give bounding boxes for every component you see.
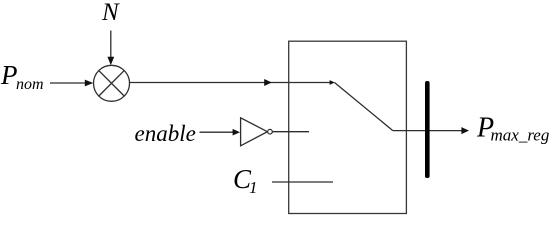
wire multiplier to switch box xyxy=(130,82,331,84)
output label Pmax_reg xyxy=(476,113,549,145)
label enable xyxy=(135,121,196,146)
svg-text:enable: enable xyxy=(135,121,196,146)
wire enable to inverter xyxy=(200,129,241,136)
multiplier M1 xyxy=(94,65,130,101)
input label N xyxy=(101,0,120,26)
label C1 xyxy=(233,164,258,197)
wire inverter to switch box xyxy=(272,131,309,133)
svg-text:max_reg: max_reg xyxy=(491,126,550,145)
bus bar xyxy=(425,81,430,178)
wire C1 to switch box xyxy=(272,181,333,183)
wire N to multiplier xyxy=(107,31,114,66)
svg-text:N: N xyxy=(101,0,120,26)
switch box U1 xyxy=(289,41,407,213)
output wire xyxy=(393,127,469,134)
inverter U2 xyxy=(241,118,268,146)
wire Pnom to multiplier xyxy=(50,80,93,87)
switch blade (diagonal) xyxy=(335,83,393,131)
svg-text:nom: nom xyxy=(16,76,44,93)
inverter output bubble xyxy=(268,129,273,134)
arrowhead at switch pivot xyxy=(330,80,335,85)
input label Pnom xyxy=(0,60,44,93)
svg-text:P: P xyxy=(0,60,18,90)
arrowhead on main wire xyxy=(264,79,272,86)
svg-text:1: 1 xyxy=(249,178,258,197)
